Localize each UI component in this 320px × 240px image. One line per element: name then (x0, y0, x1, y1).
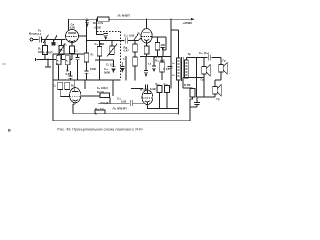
capacitor anode RC (161, 44, 165, 46)
dashed unit boundary horizontal (97, 31, 121, 33)
wire under tone (95, 59, 104, 61)
wire cathode row (140, 56, 171, 58)
tube V1 triode L1a (66, 30, 79, 43)
svg-text:1а: 1а (172, 63, 175, 65)
svg-text:R₁₂: R₁₂ (123, 59, 126, 61)
svg-text:+1,5В: +1,5В (94, 25, 101, 29)
svg-text:+250В: +250В (183, 21, 193, 25)
wire heater (131, 88, 143, 90)
wire speaker net vertical (196, 58, 198, 98)
wire cap to V2 grid (128, 40, 138, 42)
svg-text:0,05: 0,05 (121, 100, 127, 104)
svg-text:R₇: R₇ (91, 53, 94, 57)
wire tone mid vertical (125, 56, 127, 80)
wire V2 anode to rail (146, 19, 148, 28)
svg-text:R₁₆ 400: R₁₆ 400 (155, 59, 165, 63)
wire rail to transformer drop (170, 19, 172, 88)
capacitor electrolytic mid column (145, 57, 147, 71)
resistor R16 (160, 62, 164, 72)
tube V4 output pentode (142, 90, 153, 104)
svg-text:С₆ 5,0: С₆ 5,0 (106, 63, 114, 67)
capacitor C10 (165, 86, 170, 93)
svg-text:С₂: С₂ (75, 49, 79, 53)
svg-text:Л₁ 6Н2П: Л₁ 6Н2П (118, 13, 131, 17)
resistor tone 1 (97, 47, 101, 57)
svg-text:6,3В: 6,3В (150, 87, 156, 91)
pot wiper arrow mid (134, 35, 138, 41)
svg-text:С₆: С₆ (53, 84, 57, 88)
wire V3 grid (60, 96, 70, 98)
svg-text:R₅: R₅ (66, 61, 69, 63)
wire speaker net bottom row (197, 96, 216, 98)
resistor R13 box (100, 93, 110, 98)
wire V1 cathode (71, 42, 73, 46)
wire divider row top (53, 53, 87, 55)
wire R17 down (159, 93, 161, 109)
capacitor electrolytic filter Cf (104, 33, 108, 35)
ground (47, 59, 49, 66)
capacitor electrolytic at dashed line (121, 62, 123, 67)
resistor R6 (58, 82, 63, 89)
svg-text:0,05: 0,05 (70, 26, 76, 30)
resistor V2 cathode (144, 46, 149, 54)
wire R6 down to V3 grid (59, 89, 61, 96)
terminal tick left (35, 58, 37, 61)
capacitor heater pair (145, 85, 147, 90)
wire R5 down to C5 (67, 65, 69, 71)
resistor R7 column (86, 20, 88, 53)
transformer Tr primary winding (177, 58, 181, 80)
wire cathode row right (148, 108, 179, 110)
wire speakers top (186, 57, 221, 59)
transformer secondary winding (185, 60, 189, 78)
svg-text:R₁₇: R₁₇ (156, 82, 160, 86)
wire filter node horizontal (97, 33, 104, 35)
capacitor 5,0 small (153, 57, 155, 67)
tube V2 triode L1b (141, 29, 152, 43)
wire V2 anode right (152, 36, 166, 38)
wire V3 anode right (81, 95, 100, 97)
capacitor coupling C (125, 39, 129, 42)
svg-text:С₅: С₅ (66, 69, 70, 73)
speaker Gr1 (203, 58, 205, 67)
svg-text:Вход: Вход (29, 32, 37, 36)
transformer core (180, 57, 182, 81)
svg-text:R 4М: R 4М (184, 83, 191, 87)
svg-text:Рис. 49. Принципиальная схема: Рис. 49. Принципиальная схема лампового … (57, 128, 143, 132)
resistor R17 (157, 86, 162, 93)
wire V4 cathode down (146, 102, 148, 108)
resistor R3 cathode (70, 46, 75, 54)
capacitor C5 (69, 75, 73, 77)
speaker Gr2 (220, 58, 222, 65)
wire secondary bottom row (183, 77, 204, 79)
svg-text:С₁₃ 0,03: С₁₃ 0,03 (124, 34, 135, 38)
svg-text:1000: 1000 (90, 67, 96, 71)
wire V1 anode vertical (68, 19, 70, 30)
capacitor C13 coupling to V4 (129, 100, 131, 106)
svg-text:С₁₂: С₁₂ (104, 67, 109, 71)
wire secondary top (185, 58, 187, 61)
svg-text:Тр: Тр (188, 52, 192, 56)
svg-text:С₁₁ (С₈): С₁₁ (С₈) (199, 51, 209, 55)
wire to primary top (171, 29, 179, 31)
svg-text:R₃: R₃ (64, 43, 68, 47)
resistor screen column (133, 57, 137, 66)
wire rail drop to filter node (96, 19, 98, 34)
svg-text:Rф 4,7к: Rф 4,7к (93, 21, 104, 25)
wire left boundary vertical (52, 54, 54, 121)
svg-text:1б: 1б (172, 74, 175, 77)
capacitor primary tap (168, 66, 173, 68)
svg-text:в: в (8, 129, 11, 134)
wire row3 top (73, 80, 75, 88)
wire bus2 down to R15 row (84, 80, 86, 89)
wire V2 grid coupling (87, 40, 135, 42)
svg-text:5,0: 5,0 (148, 64, 152, 66)
wire V4 grid left (98, 102, 130, 104)
potentiometer R1 wiper arrow (44, 40, 46, 48)
arrowhead +250V (191, 18, 195, 20)
junction left boundary gnd bus (52, 59, 53, 60)
wire +250V supply rail (69, 18, 192, 20)
page edge mark (3, 63, 7, 65)
capacitor V2 cathode bypass (155, 43, 160, 51)
resistor R5 (65, 56, 70, 65)
capacitor electrolytic on anode line (86, 19, 88, 21)
svg-text:Гр₁: Гр₁ (201, 78, 206, 82)
wire V2 cathode (146, 41, 148, 46)
wire right end vertical up (189, 99, 191, 121)
wire midline feedback (73, 113, 179, 115)
svg-text:Ту: Ту (38, 29, 42, 33)
svg-text:С₈ 100,0: С₈ 100,0 (97, 86, 108, 90)
input terminal (30, 38, 33, 41)
junctions on bus2 (58, 79, 59, 80)
wire primary bottom to midline (178, 80, 180, 114)
resistor R4 (56, 56, 61, 65)
dashed unit boundary vertical (120, 32, 122, 80)
capacitor C1 input (39, 38, 43, 40)
svg-text:Л₁ 6Н2П: Л₁ 6Н2П (42, 51, 53, 55)
svg-text:Гр: Гр (217, 97, 220, 101)
resistor Rd box (133, 44, 137, 52)
svg-text:0,1: 0,1 (38, 32, 42, 36)
resistor R2 grid leak (61, 40, 63, 48)
wire V3 cathode down (72, 104, 74, 114)
wire bus2 (53, 79, 121, 81)
wire C10 down (166, 93, 168, 109)
switch arrow on grid wire (53, 36, 57, 44)
capacitor C7 speaker (207, 56, 211, 59)
svg-text:0,47: 0,47 (124, 49, 130, 53)
wire cap to V4 grid (133, 102, 144, 104)
tube V3 triode L2b (70, 88, 81, 103)
wire R4 down to bus2 (58, 65, 60, 80)
resistor R1 volume (43, 46, 48, 55)
svg-text:5000: 5000 (104, 71, 110, 75)
capacitor blob on input wire (53, 40, 55, 43)
wire x113 down (112, 80, 114, 96)
capacitor 1000 on R7 column (85, 70, 89, 72)
wire ground bus input stage (37, 59, 73, 61)
wire bottom bus (53, 120, 190, 122)
resistor Rf on rail (98, 17, 110, 21)
wire V1 anode to coupling node (79, 35, 87, 37)
junction rail drop (96, 19, 97, 20)
speaker Gr3 (213, 87, 217, 95)
svg-text:R₄: R₄ (57, 61, 60, 63)
resistor R8 (65, 82, 70, 89)
capacitor speaker net to bus (196, 97, 198, 103)
potentiometer tone (110, 46, 114, 55)
svg-text:Гр: Гр (223, 59, 226, 63)
svg-text:Rв 470: Rв 470 (154, 55, 163, 59)
svg-text:С₄ 100: С₄ 100 (95, 42, 104, 46)
resistor R20 feedback (190, 89, 195, 98)
svg-text:Л₃ 6П14П: Л₃ 6П14П (113, 107, 128, 111)
wire input to grid (33, 39, 66, 41)
